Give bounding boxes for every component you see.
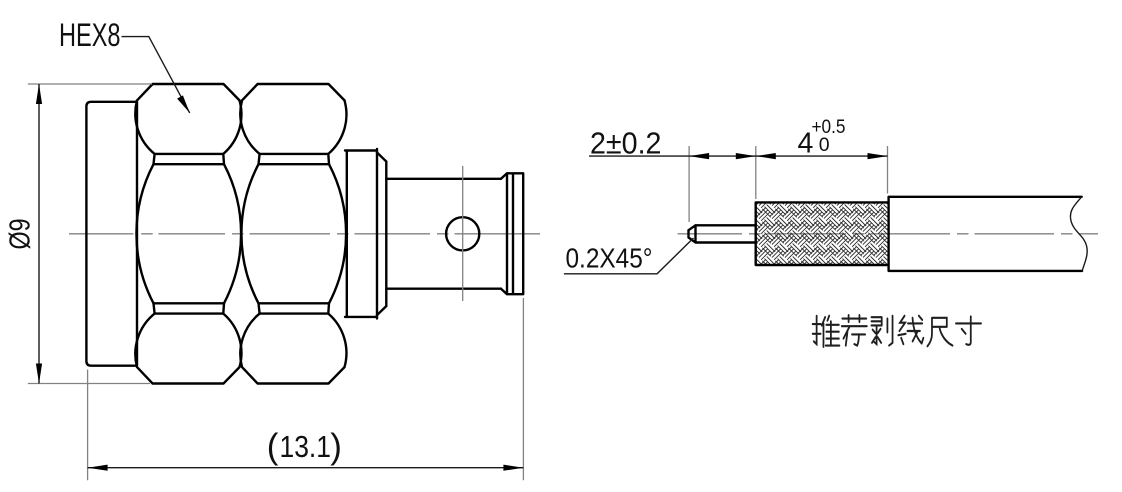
dimension Ø9 : dimension line (38, 84, 40, 384)
hex cell middle face side arcs (136, 164, 241, 303)
center pin with chamfered tip (689, 225, 756, 242)
hex nut (two cells, circle-arc faces) (135, 84, 241, 384)
arrowheads at 2±0.2 span (689, 153, 709, 159)
hex cell lower waist trapezoid (154, 303, 225, 313)
dimension Ø9 : extension lines (28, 84, 152, 384)
char 推 (813, 316, 840, 347)
svg-text:0: 0 (819, 134, 830, 156)
hole vertical crosshair (462, 166, 464, 301)
svg-text:0.2X45°: 0.2X45° (566, 242, 653, 273)
hex cell bottom face arcs + chamfers + bottom flat (135, 314, 241, 384)
dimension (13.1) : extension lines (88, 298, 524, 480)
hex cell upper face side arcs (135, 100, 241, 153)
dimension Ø9 : arrowheads (36, 84, 42, 104)
hex cell top flat + chamfers (137, 84, 240, 100)
dimension line (589, 155, 888, 157)
dimension 2±0.2 / 4+0.5 : extension lines (689, 146, 887, 222)
char 线 (898, 316, 923, 344)
jacket break squiggle (1070, 197, 1087, 271)
cable jacket (889, 197, 1083, 271)
side hole circle on barrel (446, 217, 479, 250)
svg-text:2±0.2: 2±0.2 (590, 127, 662, 161)
flange (rear body cylinder) (86, 102, 137, 366)
char 寸 (956, 316, 981, 344)
leader HEX8 : leader line (122, 37, 190, 113)
char 尺 (927, 318, 952, 346)
char 剥 (871, 316, 892, 346)
barrel (front cylinder) (386, 179, 501, 289)
braid block (crosshatched) (756, 202, 888, 265)
char 荐 (842, 315, 867, 345)
leader HEX8 : arrowhead (177, 95, 190, 113)
dimension (13.1) : arrowheads (88, 465, 108, 471)
svg-text:HEX8: HEX8 (59, 17, 121, 53)
hex cell upper waist trapezoid (154, 154, 225, 164)
dimension (13.1) : dimension line (88, 467, 524, 469)
collar chamfer ring to barrel (377, 153, 386, 316)
centerline (main axis, left view) (69, 233, 540, 235)
collar (step ring after hex) (345, 149, 377, 319)
hex nut cell 2 (240, 84, 346, 384)
arrowheads at 4 span (756, 153, 776, 159)
svg-text:13.1: 13.1 (280, 430, 332, 464)
svg-text:(: ( (267, 427, 279, 466)
svg-text:Ø9: Ø9 (5, 219, 37, 250)
svg-text:): ) (330, 427, 342, 466)
centerline (cable axis) (678, 233, 1098, 235)
leader for 0.2X45° (564, 238, 694, 274)
barrel end chamfer + lip (501, 173, 523, 294)
